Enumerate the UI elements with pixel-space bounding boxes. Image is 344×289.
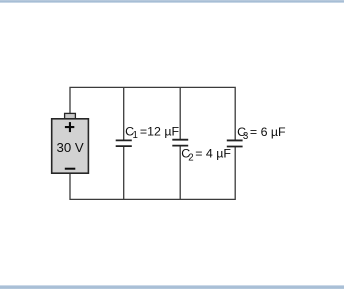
svg-text:= 4 µF: = 4 µF (195, 147, 231, 161)
svg-text:2: 2 (188, 153, 193, 164)
svg-text:1: 1 (133, 130, 138, 141)
svg-text:30 V: 30 V (57, 140, 84, 155)
svg-text:=12 µF: =12 µF (140, 124, 180, 138)
svg-text:3: 3 (243, 131, 248, 142)
svg-text:= 6 µF: = 6 µF (250, 125, 286, 139)
